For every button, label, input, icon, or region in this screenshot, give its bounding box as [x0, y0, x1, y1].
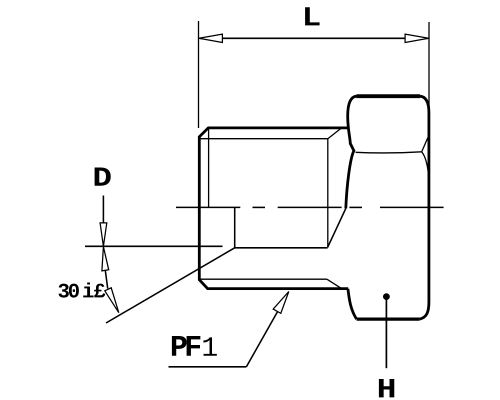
- arrowhead L left: [199, 34, 223, 42]
- hex head top edge: [357, 94, 421, 98]
- leader link to 30deg arrow: [105, 270, 107, 288]
- cavity bottom line: [235, 247, 328, 249]
- extension line left (for L): [198, 21, 200, 128]
- centerline dash 3: [278, 206, 342, 208]
- hex head bottom edge: [357, 318, 420, 321]
- 30 degree construction line: [106, 248, 235, 323]
- D arrowhead down: [100, 223, 107, 246]
- arrowhead L right: [405, 34, 429, 42]
- D reference line: [85, 245, 223, 247]
- D arrowhead up: [102, 247, 109, 271]
- cavity cone diagonal: [328, 208, 346, 247]
- label PF1 glyph 1: [203, 337, 216, 355]
- PF1 leader diagonal: [246, 302, 283, 367]
- D leader line: [102, 196, 104, 224]
- label PF1 glyph F: [187, 336, 201, 356]
- hex head left profile: [346, 96, 357, 208]
- label 30 glyph i: [83, 282, 93, 297]
- hex chamfer line: [356, 152, 422, 153]
- extension line right (for L): [428, 22, 430, 110]
- hex head right profile: [420, 96, 429, 319]
- label H glyph: [379, 379, 394, 397]
- body outline (threaded plug body): [199, 128, 348, 289]
- H leader line: [385, 297, 387, 369]
- label 30 glyph 3: [58, 284, 68, 298]
- PF1 arrowhead: [273, 292, 289, 314]
- thread end vertical: [327, 139, 329, 248]
- label PF1 glyph P: [172, 336, 187, 356]
- hex chamfer curve right lower: [422, 152, 429, 177]
- label L glyph: [305, 7, 319, 25]
- thread runout diagonal top: [328, 128, 342, 139]
- hex chamfer diagonal right upper: [422, 138, 428, 152]
- thread minor line top: [200, 138, 328, 140]
- thread runout diagonal bottom: [327, 279, 342, 288]
- centerline dash 5: [380, 206, 444, 208]
- label D glyph: [95, 168, 111, 186]
- thread minor line bottom: [200, 278, 327, 280]
- dimension line L: [200, 37, 428, 39]
- hex head bottom-left corner: [348, 289, 357, 319]
- label 30 glyph 0: [69, 284, 79, 298]
- centerline dash 4: [349, 206, 362, 208]
- centerline dash 2: [253, 206, 266, 208]
- label 30 glyph pound: [94, 284, 105, 298]
- cavity vertical: [234, 208, 236, 248]
- H reference dot: [383, 293, 390, 300]
- centerline dash 1: [176, 206, 240, 208]
- 30deg arrowhead: [105, 288, 119, 313]
- thread chamfer vertical (left end): [208, 129, 210, 208]
- PF1 underline: [169, 366, 247, 368]
